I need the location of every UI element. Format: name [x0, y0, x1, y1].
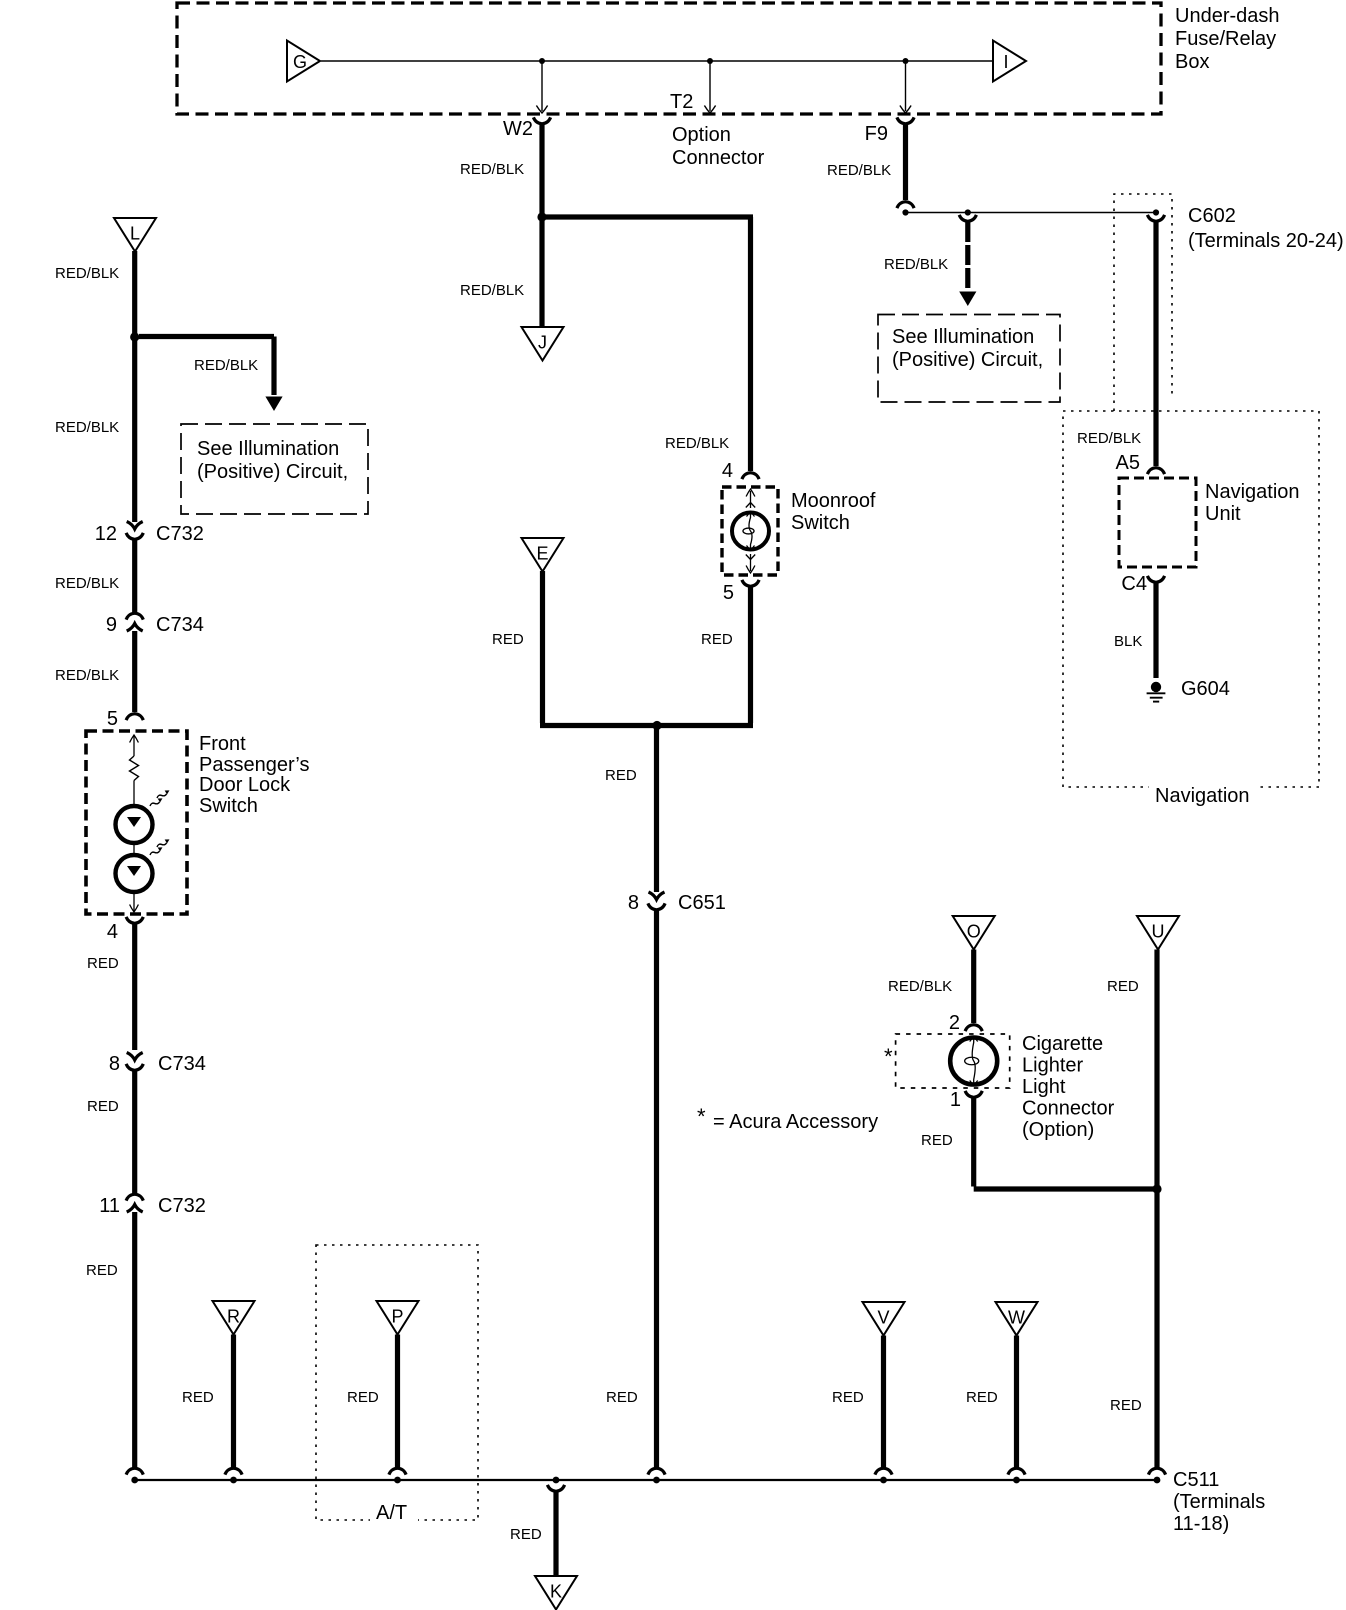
triangle O — [953, 916, 995, 950]
wire dashed arrow down (illumination) — [965, 222, 970, 288]
connector cup R at rail — [225, 1468, 242, 1474]
svg-text:RED: RED — [966, 1389, 998, 1406]
connector cup F9 bottom — [897, 202, 914, 208]
svg-text:Cigarette: Cigarette — [1022, 1033, 1103, 1055]
node F9 line left — [902, 209, 908, 215]
svg-text:*: * — [884, 1044, 893, 1069]
connector cup W at rail — [1008, 1468, 1025, 1474]
wire cig lighter pin1 down RED — [971, 1098, 976, 1187]
open arrow into F9 — [900, 106, 911, 114]
svg-text:11: 11 — [99, 1195, 120, 1217]
connector cup C602 — [1147, 215, 1164, 221]
node rail W — [1013, 1477, 1020, 1484]
svg-text:Passenger’s: Passenger’s — [199, 754, 309, 776]
svg-text:8: 8 — [109, 1053, 120, 1075]
inline connector C734 upper — [126, 613, 143, 619]
arrow to see-illumination (right) — [959, 292, 976, 307]
svg-text:RED/BLK: RED/BLK — [1077, 430, 1141, 447]
connector cup L-chain at rail — [126, 1468, 143, 1474]
svg-text:5: 5 — [107, 708, 118, 730]
svg-text:C732: C732 — [158, 1195, 206, 1217]
svg-text:L: L — [130, 224, 140, 244]
node rail mid — [653, 1477, 660, 1484]
svg-text:F9: F9 — [865, 123, 888, 145]
triangle I (fuse box feed) — [993, 41, 1026, 82]
wire cig lighter to U wire (horizontal) — [974, 1186, 1157, 1191]
node F9 tap on bus — [903, 58, 909, 64]
svg-text:J: J — [538, 333, 547, 353]
connector cup C4 — [1147, 576, 1164, 582]
node rail V — [880, 1477, 887, 1484]
open arrow into W2 — [536, 106, 547, 114]
svg-text:Front: Front — [199, 733, 246, 755]
svg-text:W2: W2 — [503, 118, 533, 140]
lamp moonroof illumination bulb — [732, 513, 769, 550]
svg-text:RED: RED — [182, 1389, 214, 1406]
bottom rail C511 (thin) — [135, 1479, 1157, 1481]
wire W down RED — [1014, 1336, 1019, 1469]
wire bus tap down to W2 — [541, 61, 543, 111]
lamp cigarette lighter bulb — [950, 1038, 997, 1085]
triangle E — [522, 538, 564, 572]
inline connector C734 lower — [127, 1053, 143, 1061]
svg-text:Navigation: Navigation — [1155, 785, 1250, 807]
svg-text:RED/BLK: RED/BLK — [460, 282, 524, 299]
svg-text:(Option): (Option) — [1022, 1119, 1094, 1141]
svg-text:Switch: Switch — [199, 795, 258, 817]
connector cup K branch — [547, 1485, 564, 1491]
connector cup door switch pin 4 — [126, 917, 143, 923]
svg-text:R: R — [227, 1307, 240, 1327]
inline connector C732 upper — [127, 522, 143, 530]
A/T dotted box — [316, 1245, 478, 1520]
moonroof pin 5 terminal symbol — [750, 554, 752, 571]
arrow to see-illumination (left) — [265, 397, 282, 412]
wire L junction down to C732 — [132, 337, 137, 522]
svg-text:RED: RED — [832, 1389, 864, 1406]
triangle R — [213, 1301, 255, 1335]
node C602 entry — [1153, 209, 1159, 215]
wire C732 lower down to rail — [132, 1212, 137, 1469]
svg-text:RED/BLK: RED/BLK — [194, 357, 258, 374]
wire door switch pin4 down RED — [132, 924, 137, 1050]
svg-text:Navigation: Navigation — [1205, 481, 1300, 503]
node W2 branch junction — [537, 212, 546, 221]
wire E to moonroof bottom junction (horizontal) — [540, 723, 753, 728]
svg-text:11-18): 11-18) — [1173, 1513, 1229, 1535]
node illumination arrow tap — [965, 209, 971, 215]
connector cup P at rail — [389, 1468, 406, 1474]
svg-text:RED/BLK: RED/BLK — [665, 435, 729, 452]
connector cup moonroof pin 4 — [742, 473, 759, 479]
node rail U — [1154, 1477, 1161, 1484]
LED D2 (door lock indicator) — [116, 855, 153, 892]
svg-text:Moonroof: Moonroof — [791, 490, 876, 512]
svg-text:Box: Box — [1175, 51, 1209, 73]
svg-text:C734: C734 — [156, 614, 204, 636]
svg-text:Switch: Switch — [791, 512, 850, 534]
svg-text:C651: C651 — [678, 892, 726, 914]
wire L branch down to arrow — [271, 337, 276, 396]
see illumination box (right, dashed) — [878, 315, 1060, 403]
svg-text:C734: C734 — [158, 1053, 206, 1075]
node rail P — [394, 1477, 401, 1484]
wire C4 down BLK — [1153, 583, 1158, 678]
connector cup V at rail — [875, 1468, 892, 1474]
wire C734 to door lock switch pin 5 — [132, 631, 137, 712]
see illumination box (left, dashed) — [181, 424, 368, 514]
svg-text:E: E — [536, 544, 548, 564]
svg-text:(Positive) Circuit,: (Positive) Circuit, — [197, 461, 348, 483]
svg-text:C511: C511 — [1173, 1469, 1219, 1491]
node W2 tap on bus — [539, 58, 545, 64]
svg-text:RED/BLK: RED/BLK — [55, 667, 119, 684]
navigation unit box (dashed) — [1119, 478, 1196, 567]
node L branch junction — [130, 332, 139, 341]
wire V down RED — [881, 1336, 886, 1469]
moonroof pin 4 terminal symbol — [750, 491, 752, 508]
svg-text:2: 2 — [949, 1012, 960, 1034]
svg-text:(Positive) Circuit,: (Positive) Circuit, — [892, 349, 1043, 371]
wire P down RED — [395, 1335, 400, 1469]
wire moonroof pin5 down RED — [748, 587, 753, 723]
wire U down RED — [1154, 950, 1159, 1469]
svg-text:P: P — [391, 1307, 403, 1327]
svg-text:8: 8 — [628, 892, 639, 914]
svg-text:O: O — [967, 922, 981, 942]
svg-text:RED: RED — [87, 1098, 119, 1115]
navigation dotted box — [1063, 411, 1319, 787]
node rail L — [131, 1477, 138, 1484]
svg-text:RED: RED — [347, 1389, 379, 1406]
wire internal bus G to I — [321, 60, 992, 62]
light arrows LED1 — [156, 789, 171, 798]
wire W2 down RED/BLK — [539, 124, 544, 217]
wire W2 junction down to J — [539, 217, 544, 326]
connector cup door switch pin 5 — [126, 714, 143, 720]
svg-text:BLK: BLK — [1114, 633, 1142, 650]
door switch internal lead lower — [133, 892, 135, 911]
svg-text:RED: RED — [1107, 978, 1139, 995]
triangle G (fuse box feed) — [287, 41, 320, 82]
triangle L — [114, 218, 156, 252]
svg-text:C732: C732 — [156, 523, 204, 545]
wire bus tap down to F9 — [905, 61, 907, 111]
ground G604 — [1151, 682, 1161, 692]
wire E down RED — [540, 571, 545, 723]
svg-text:Connector: Connector — [672, 147, 765, 169]
wire internal LED1 to LED2 — [133, 843, 135, 855]
wire C651 down to bottom rail — [654, 909, 659, 1469]
connector cup at F9 — [897, 117, 914, 123]
svg-text:See Illumination: See Illumination — [197, 438, 339, 460]
svg-text:A5: A5 — [1116, 452, 1140, 474]
label A/T — [370, 1502, 418, 1522]
triangle K — [535, 1576, 577, 1610]
svg-text:W: W — [1008, 1308, 1025, 1328]
svg-text:(Terminals: (Terminals — [1173, 1491, 1265, 1513]
svg-text:*: * — [697, 1104, 706, 1129]
connector cup cig lighter pin 2 — [965, 1025, 982, 1031]
svg-text:C602: C602 — [1188, 205, 1236, 227]
svg-text:V: V — [877, 1308, 889, 1328]
wire R down RED — [231, 1335, 236, 1469]
wire O down RED/BLK — [971, 950, 976, 1024]
connector cup illumination branch — [959, 215, 976, 221]
connector cup moonroof pin 5 — [742, 580, 759, 586]
connector cup at W2 — [533, 117, 550, 123]
label Navigation (box name) — [1149, 784, 1259, 806]
svg-text:K: K — [550, 1582, 562, 1602]
inline connector C651 — [649, 892, 665, 900]
svg-text:Lighter: Lighter — [1022, 1055, 1083, 1077]
node T2 tap on bus — [707, 58, 713, 64]
svg-text:5: 5 — [723, 582, 734, 604]
svg-text:RED/BLK: RED/BLK — [460, 161, 524, 178]
wire C732 to C734 — [132, 539, 137, 613]
connector cup U wire at rail — [1148, 1468, 1165, 1474]
svg-text:I: I — [1003, 52, 1008, 72]
wire internal resistor to LED1 — [133, 781, 135, 807]
svg-text:Under-dash: Under-dash — [1175, 5, 1280, 27]
svg-text:RED: RED — [701, 631, 733, 648]
inline connector C732 lower — [126, 1194, 143, 1200]
wire L down RED/BLK — [132, 251, 137, 337]
wire branch down to moonroof pin 4 — [748, 217, 753, 471]
svg-text:RED/BLK: RED/BLK — [55, 419, 119, 436]
triangle U — [1137, 916, 1179, 950]
node rail K — [553, 1477, 560, 1484]
svg-text:4: 4 — [107, 921, 118, 943]
cigarette lighter box (dashed) — [896, 1034, 1010, 1088]
svg-text:4: 4 — [722, 460, 733, 482]
open arrow into T2 — [704, 106, 715, 114]
svg-text:(Terminals 20-24): (Terminals 20-24) — [1188, 230, 1344, 252]
triangle W — [996, 1302, 1038, 1336]
wire mid junction down to C651 — [654, 726, 659, 893]
svg-text:9: 9 — [106, 614, 117, 636]
svg-text:Unit: Unit — [1205, 503, 1241, 525]
resistor (door switch illumination) — [130, 756, 139, 781]
svg-text:1: 1 — [950, 1089, 961, 1111]
connector cup mid wire at rail — [648, 1468, 665, 1474]
wire bus tap down to T2 — [709, 61, 711, 111]
connector cup cig lighter pin 1 — [965, 1091, 982, 1097]
door lock switch box (dashed) — [86, 731, 187, 914]
C602 dotted box — [1114, 194, 1172, 411]
svg-text:Option: Option — [672, 124, 731, 146]
light arrows LED2 — [156, 838, 171, 847]
svg-text:RED/BLK: RED/BLK — [827, 162, 891, 179]
svg-text:T2: T2 — [670, 91, 693, 113]
door switch internal lead upper — [133, 735, 135, 756]
svg-text:See Illumination: See Illumination — [892, 326, 1034, 348]
svg-text:G604: G604 — [1181, 678, 1230, 700]
wire L branch right (horizontal) — [139, 334, 274, 339]
wire F9 down RED/BLK — [903, 124, 908, 200]
wire branch to moonroof (horizontal) — [540, 214, 754, 219]
svg-text:RED: RED — [1110, 1397, 1142, 1414]
svg-text:RED/BLK: RED/BLK — [55, 575, 119, 592]
svg-text:G: G — [293, 52, 307, 72]
svg-text:RED/BLK: RED/BLK — [888, 978, 952, 995]
node U wire junction — [1152, 1184, 1161, 1193]
svg-text:RED: RED — [510, 1526, 542, 1543]
svg-text:RED: RED — [86, 1262, 118, 1279]
svg-text:RED/BLK: RED/BLK — [55, 265, 119, 282]
LED D1 (door lock indicator) — [116, 806, 153, 843]
svg-text:12: 12 — [95, 523, 117, 545]
svg-text:RED: RED — [606, 1389, 638, 1406]
svg-text:Connector: Connector — [1022, 1098, 1115, 1120]
svg-text:Fuse/Relay: Fuse/Relay — [1175, 28, 1276, 50]
svg-text:C4: C4 — [1121, 573, 1147, 595]
wire C734 lower down — [132, 1070, 137, 1194]
node rail R — [230, 1477, 237, 1484]
triangle V — [863, 1302, 905, 1336]
svg-text:= Acura Accessory: = Acura Accessory — [713, 1111, 878, 1133]
svg-text:RED/BLK: RED/BLK — [884, 256, 948, 273]
under-dash fuse/relay box (dashed) — [177, 3, 1161, 114]
svg-text:RED: RED — [87, 955, 119, 972]
svg-text:A/T: A/T — [376, 1502, 407, 1524]
triangle J — [522, 327, 564, 361]
svg-text:RED: RED — [605, 767, 637, 784]
connector cup A5 — [1147, 468, 1164, 474]
svg-text:RED: RED — [921, 1132, 953, 1149]
svg-text:Door Lock: Door Lock — [199, 774, 291, 796]
wire C602 down to A5 RED/BLK — [1153, 222, 1158, 466]
wire thin line F9 to C602 — [906, 212, 1157, 214]
svg-text:Light: Light — [1022, 1076, 1066, 1098]
triangle P — [377, 1301, 419, 1335]
svg-text:RED: RED — [492, 631, 524, 648]
wire K down RED — [553, 1492, 558, 1576]
svg-text:U: U — [1152, 922, 1165, 942]
moonroof switch box (dashed) — [722, 487, 778, 575]
node mid junction — [652, 721, 661, 730]
